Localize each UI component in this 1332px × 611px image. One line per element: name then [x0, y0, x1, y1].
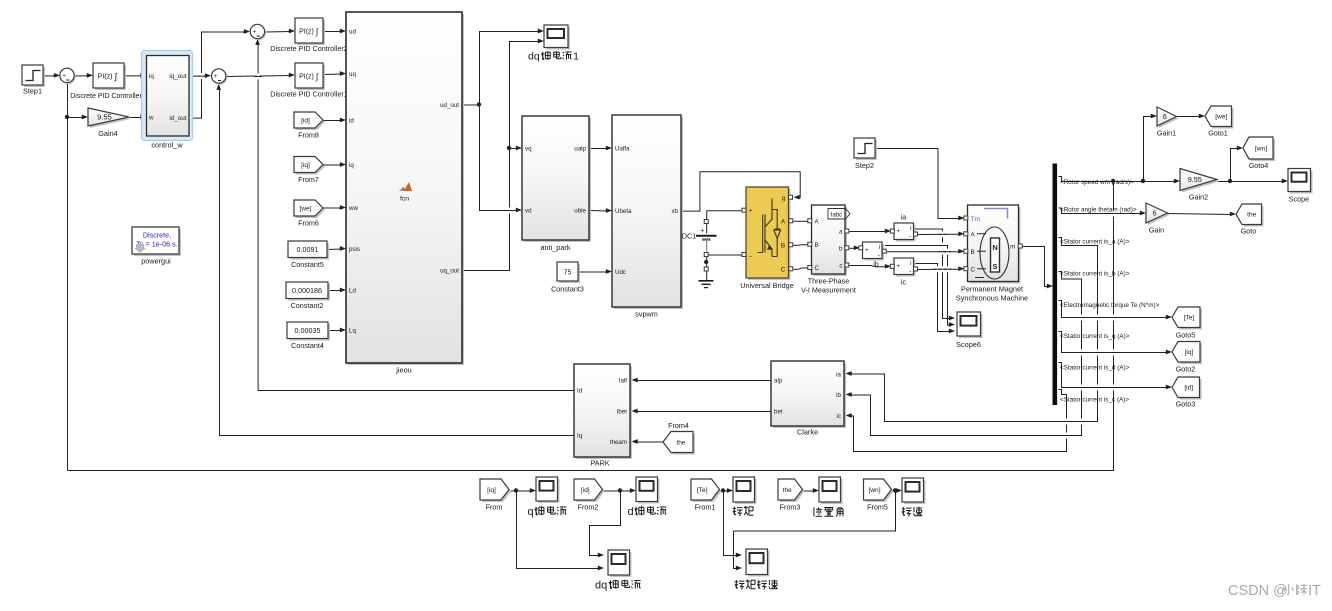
svg-text:id_out: id_out — [169, 115, 186, 122]
subsystem PARK — [576, 366, 632, 459]
wire control_w iq_out to Sum3 — [190, 75, 207, 77]
subsystem control_w highlighted — [142, 51, 193, 141]
wire Gain2 output to Scope with Goto4 branch — [1218, 181, 1284, 183]
block Discrete PID Controller speed — [95, 65, 126, 90]
block Universal Bridge IGBT — [748, 189, 791, 280]
constant Constant2 0.000186 — [288, 284, 330, 301]
svg-text:[iq]: [iq] — [1185, 349, 1194, 356]
svg-text:Constant5: Constant5 — [291, 260, 324, 269]
svg-text:+: + — [700, 228, 704, 235]
svg-text:9.55: 9.55 — [97, 113, 112, 122]
wire bus out1 rotor speed to Gain2/Scope — [1059, 177, 1176, 182]
wire ic i-signal down to Scope6 input3 — [914, 264, 951, 332]
svg-text:From3: From3 — [780, 503, 801, 512]
wire control_w id_out up to Sum2 — [190, 32, 246, 118]
wire ic minus to PMSM C — [918, 268, 961, 270]
svg-text:1: 1 — [573, 51, 579, 63]
svg-text:i: i — [910, 225, 911, 232]
from From5 wn — [866, 481, 894, 502]
wire meas a to ia plus — [850, 231, 887, 233]
svg-text:Tm: Tm — [971, 216, 981, 223]
subsystem Clarke — [773, 363, 846, 428]
svg-text:ia: ia — [836, 372, 841, 379]
svg-text:0.00035: 0.00035 — [295, 326, 321, 335]
svg-text:jieou: jieou — [395, 366, 411, 375]
svg-text:Iq: Iq — [577, 433, 583, 440]
wire Constant5 to jieou psis — [328, 248, 342, 251]
svg-text:IT: IT — [1308, 583, 1321, 599]
svg-text:<Stator current is_q (A)>: <Stator current is_q (A)> — [1060, 333, 1130, 340]
svg-text:0.0091: 0.0091 — [297, 245, 319, 254]
wire bus out2 rotor angle to Gain — [1059, 208, 1142, 214]
svg-text:DC1: DC1 — [682, 232, 697, 241]
wire bridge C to measurement C — [794, 268, 809, 269]
svg-text:i: i — [910, 260, 911, 267]
svg-text:<Rotor angle thetam (rad)>: <Rotor angle thetam (rad)> — [1060, 207, 1137, 214]
svg-text:B: B — [971, 249, 975, 256]
svg-text:From7: From7 — [298, 175, 319, 184]
source DC1 battery — [704, 220, 708, 224]
svg-text:+: + — [897, 228, 901, 235]
svg-text:[Te]: [Te] — [1184, 315, 1195, 322]
subsystem svpwm — [614, 117, 683, 309]
svg-text:From6: From6 — [298, 219, 319, 228]
bus selector bar — [1055, 164, 1057, 406]
svg-text:the: the — [1247, 212, 1256, 219]
svg-text:the: the — [783, 487, 792, 494]
block current measurement ia — [896, 225, 916, 242]
svg-text:ic: ic — [837, 413, 841, 420]
svg-text:[we]: [we] — [1215, 114, 1227, 121]
wire From4 to PARK theam — [638, 441, 664, 443]
constant Constant5 0.0091 — [290, 243, 329, 260]
svg-text:Id: Id — [577, 388, 583, 395]
scope torque and speed combined — [748, 551, 770, 577]
svg-text:[id]: [id] — [581, 487, 590, 494]
wire jieou uq_out to anti_park vq and scope — [463, 149, 518, 271]
svg-text:iq: iq — [349, 162, 354, 169]
svg-text:dq: dq — [528, 51, 540, 63]
svg-text:From: From — [486, 503, 503, 512]
svg-text:Scope6: Scope6 — [956, 340, 981, 349]
svg-text:Gain2: Gain2 — [1189, 193, 1208, 202]
wire DC1 plus to bridge — [707, 210, 743, 212]
gain Gain2 9.55 — [1182, 171, 1219, 193]
svg-text:g: g — [782, 195, 786, 202]
goto Goto the — [1238, 206, 1264, 227]
wire ib minus to PMSM B — [887, 251, 960, 253]
svg-text:75: 75 — [564, 268, 572, 277]
svg-text:+: + — [253, 29, 257, 36]
svg-text:svpwm: svpwm — [635, 310, 658, 319]
wire PMSM m to Bus Selector — [1019, 247, 1049, 287]
svg-text:PI(z): PI(z) — [97, 72, 112, 81]
block Permanent Magnet Synchronous Machine — [970, 207, 1021, 284]
svg-text:CSDN @: CSDN @ — [1228, 583, 1288, 599]
svg-text:ic: ic — [901, 278, 907, 287]
svg-text:A: A — [971, 232, 976, 239]
constant Constant4 0.00035 — [289, 324, 330, 341]
svg-text:anti_park: anti_park — [540, 243, 570, 252]
svg-text:+: + — [62, 72, 66, 79]
block current measurement ib — [865, 244, 885, 261]
block Discrete PID Controller2 — [297, 20, 325, 45]
scope dq axis current combined — [610, 552, 632, 577]
wire long rotor-speed feedback bottom — [68, 182, 1114, 471]
svg-text:Ibet: Ibet — [617, 409, 628, 416]
wire Gain to Goto the — [1168, 214, 1232, 215]
subsystem anti_park — [524, 118, 591, 242]
from From2 id — [576, 481, 605, 502]
svg-text:vq: vq — [525, 146, 532, 153]
svg-text:9.55: 9.55 — [1188, 175, 1202, 184]
svg-text:ud: ud — [349, 28, 356, 35]
svg-text:the: the — [676, 439, 685, 446]
wire Constant3 to svpwm Udc — [579, 271, 608, 273]
subsystem jieou decoupling — [348, 14, 464, 365]
svg-text:m: m — [1010, 244, 1015, 251]
svg-text:+: + — [897, 263, 901, 270]
svg-text:PI(z): PI(z) — [299, 74, 314, 81]
wire From iq to q-scope and dq-scope — [510, 490, 532, 492]
wire Gain1 to Goto1 — [1177, 116, 1201, 118]
wire Id feedback up to Sum2 bottom — [258, 44, 574, 390]
wire bus out7 is_d to Goto3 — [1059, 363, 1168, 388]
svg-text:Discrete PID Controller: Discrete PID Controller — [70, 93, 142, 100]
from From6 we — [296, 202, 325, 218]
svg-text:Ld: Ld — [349, 287, 356, 294]
wire meas c to ic plus — [850, 266, 887, 267]
scope torque — [735, 479, 757, 504]
svg-text:Three-Phase: Three-Phase — [808, 277, 850, 286]
svg-text:powergui: powergui — [141, 257, 171, 266]
block Three-Phase V-I Measurement — [814, 207, 848, 276]
wire Iq feedback up to Sum3 bottom — [220, 89, 575, 435]
svg-text:ww: ww — [348, 205, 358, 212]
block current measurement ic — [896, 260, 916, 277]
svg-text:<Electromagnetic torque Te (N*: <Electromagnetic torque Te (N*m)> — [1060, 302, 1160, 309]
svg-text:Step2: Step2 — [855, 161, 874, 170]
wire From3 the to angle scope — [803, 490, 815, 492]
wire Clarke alp to PARK Ialf — [638, 380, 772, 382]
wire From2 id to d-scope and dq-scope — [603, 490, 632, 492]
wire DC1 to ground — [706, 255, 708, 268]
svg-text:C: C — [781, 267, 786, 274]
wire ib i-signal down to Scope6 input2 — [885, 246, 951, 326]
svg-text:Gain: Gain — [1149, 226, 1164, 235]
svg-text:id: id — [349, 117, 354, 124]
wire PID to control_w iq — [125, 75, 143, 77]
sum Sum3 iq error — [213, 70, 227, 84]
svg-text:Ubeta: Ubeta — [615, 208, 632, 215]
svg-text:From2: From2 — [578, 503, 599, 512]
svg-text:w: w — [148, 115, 154, 122]
scope position angle — [821, 479, 843, 504]
scope d axis current — [638, 479, 660, 504]
svg-text:Discrete,: Discrete, — [143, 231, 171, 240]
scope Scope6 — [959, 314, 983, 338]
svg-text:psis: psis — [349, 246, 360, 253]
svg-text:Discrete PID Controller2: Discrete PID Controller2 — [270, 44, 348, 53]
svg-text:<Rotor speed wm (rad/s)>: <Rotor speed wm (rad/s)> — [1060, 179, 1134, 186]
wire DC1 minus to bridge — [707, 254, 743, 256]
wire From1 Te to torque scope and combined scope — [720, 490, 729, 492]
svg-text:[id]: [id] — [1184, 385, 1193, 392]
wire From8 to jieou id — [324, 120, 342, 122]
goto Goto3 id — [1174, 379, 1202, 400]
wire Step2 to PMSM Tm — [876, 149, 961, 219]
svg-text:Permanent Magnet: Permanent Magnet — [961, 285, 1023, 294]
wire From6 to jieou ww — [324, 207, 342, 209]
scope Scope speed — [1290, 171, 1313, 194]
wire speed feedback vertical x67 — [67, 83, 69, 470]
svg-text:<Stator current is_a (A)>: <Stator current is_a (A)> — [1060, 239, 1130, 246]
svg-text:c: c — [839, 262, 842, 269]
svg-text:fcn: fcn — [400, 196, 409, 203]
goto Goto4 wn — [1245, 139, 1275, 161]
svg-text:Constant2: Constant2 — [291, 301, 324, 310]
svg-text:Gain4: Gain4 — [98, 129, 117, 138]
gain Gain1 6 — [1159, 109, 1179, 128]
svg-text:From4: From4 — [668, 421, 689, 430]
svg-text:<Stator current is_c (A)>: <Stator current is_c (A)> — [1060, 397, 1129, 404]
svg-text:0.000186: 0.000186 — [292, 286, 322, 295]
wire bus out3 is_a to Clarke ia — [852, 238, 1098, 422]
scope dq axis current 1 — [546, 27, 570, 50]
svg-text:[wn]: [wn] — [1255, 145, 1267, 152]
svg-text:C: C — [815, 265, 820, 272]
svg-text:Constant3: Constant3 — [551, 285, 584, 294]
wire Sum3 to Discrete PID Controller1 — [227, 76, 291, 77]
constant Constant3 75 — [559, 264, 580, 283]
svg-text:S: S — [993, 262, 998, 271]
block Step1 source — [24, 67, 45, 87]
svg-text:ib: ib — [873, 260, 879, 269]
svg-text:uq_out: uq_out — [440, 267, 459, 274]
gain Gain 6 angle — [1148, 205, 1170, 225]
svg-text:[wn]: [wn] — [868, 487, 880, 494]
svg-text:Udc: Udc — [615, 269, 626, 276]
wire Gain4 to control_w w — [130, 117, 143, 119]
svg-text:ib: ib — [836, 392, 841, 399]
svg-text:C: C — [971, 267, 976, 274]
svg-text:B: B — [781, 243, 785, 250]
from From8 id — [296, 114, 325, 130]
svg-text:Synchronous Machine: Synchronous Machine — [956, 294, 1028, 303]
sum Sum2 id error — [252, 26, 266, 40]
svg-text:alp: alp — [774, 378, 783, 385]
svg-text:From8: From8 — [298, 131, 319, 140]
wire bus out8 is_c to Clarke ic — [852, 390, 1067, 452]
svg-text:N: N — [992, 243, 997, 252]
svg-text:Gain1: Gain1 — [1157, 129, 1176, 138]
svg-text:vd: vd — [525, 208, 532, 215]
svg-text:Universal Bridge: Universal Bridge — [740, 281, 794, 290]
wire svpwm xb to Universal Bridge g — [682, 172, 801, 211]
from From1 Te — [693, 481, 722, 502]
svg-text:theam: theam — [610, 439, 627, 446]
goto Goto2 iq — [1174, 344, 1202, 365]
wire speed feedback branch to Gain4 — [68, 117, 84, 119]
svg-text:a: a — [839, 228, 843, 235]
svg-text:Goto1: Goto1 — [1208, 129, 1228, 138]
svg-text:uq: uq — [349, 71, 356, 78]
wire Step1 to Sum1 — [44, 75, 56, 77]
svg-text:Constant4: Constant4 — [291, 341, 324, 350]
svg-text:Goto4: Goto4 — [1249, 161, 1269, 170]
scope q axis current — [538, 479, 560, 503]
svg-text:[we]: [we] — [299, 205, 311, 212]
scope speed rpm — [904, 480, 926, 504]
gain Gain4 9.55 — [90, 110, 131, 128]
wire bus out4 is_b to Clarke ib — [852, 272, 1082, 436]
wire bus out6 is_q to Goto2 — [1059, 332, 1168, 353]
wire jieou ud_out to scope and anti_park vd — [463, 32, 540, 106]
svg-text:[id]: [id] — [301, 117, 310, 124]
svg-text:B: B — [815, 242, 819, 249]
svg-text:Ualfa: Ualfa — [615, 146, 630, 153]
from From7 iq — [296, 159, 325, 175]
svg-text:6: 6 — [1163, 112, 1167, 121]
svg-text:From5: From5 — [867, 503, 888, 512]
wire Clarke bet to PARK Ibet — [638, 411, 772, 413]
block Discrete PID Controller1 — [297, 65, 325, 90]
icon IGBT and diode inside bridge — [763, 215, 765, 253]
svg-text:Goto5: Goto5 — [1176, 331, 1196, 340]
wire crossing gaps — [200, 73, 203, 79]
block Step2 source — [856, 140, 877, 160]
wire anti_park ualp to svpwm Ualfa — [590, 148, 608, 150]
svg-text:i: i — [879, 244, 880, 251]
block powergui — [134, 229, 181, 256]
wire PID2 to jieou ud — [324, 31, 342, 33]
svg-text:b: b — [839, 245, 843, 252]
svg-text:ia: ia — [901, 213, 907, 222]
wire ia i-signal down to Scope6 input1 — [914, 229, 951, 319]
svg-text:Ialf: Ialf — [619, 378, 628, 385]
goto Goto1 we — [1207, 108, 1234, 129]
svg-text:Goto: Goto — [1241, 227, 1257, 236]
icon MATLAB fcn inside jieou — [399, 182, 412, 191]
svg-text:[iq]: [iq] — [487, 487, 496, 494]
svg-text:PARK: PARK — [590, 459, 609, 468]
svg-text:Step1: Step1 — [23, 87, 42, 96]
ground symbol — [704, 267, 708, 271]
from From iq — [482, 481, 511, 502]
svg-text:uble: uble — [574, 208, 586, 215]
svg-text:ualp: ualp — [574, 146, 586, 153]
svg-text:[Te]: [Te] — [697, 487, 708, 494]
wire bridge A to measurement A — [794, 220, 809, 222]
svg-text:xb: xb — [671, 208, 678, 215]
svg-text:Iabc: Iabc — [831, 213, 842, 219]
svg-text:+: + — [749, 208, 753, 215]
svg-text:bet: bet — [774, 409, 783, 416]
svg-text:6: 6 — [1153, 209, 1157, 218]
goto Goto5 Te — [1174, 309, 1202, 330]
wire meas b to ib plus — [850, 247, 856, 249]
svg-text:iq: iq — [149, 73, 154, 80]
wire Sum1 to Discrete PID Controller — [75, 75, 89, 77]
svg-text:V-I Measurement: V-I Measurement — [801, 286, 856, 295]
svg-text:ud_out: ud_out — [440, 102, 459, 109]
wire ia minus to PMSM A — [918, 233, 961, 235]
wire anti_park uble to svpwm Ubeta — [590, 210, 608, 213]
wire Constant2 to jieou Ld — [329, 290, 342, 292]
svg-text:PI(z): PI(z) — [299, 29, 314, 36]
wire junction down x1113 — [1111, 179, 1115, 183]
svg-text:+: + — [865, 247, 869, 254]
svg-text:Lq: Lq — [349, 327, 356, 334]
svg-text:Goto2: Goto2 — [1176, 365, 1196, 374]
svg-text:control_w: control_w — [151, 141, 183, 150]
svg-text:Discrete PID Controller1: Discrete PID Controller1 — [270, 90, 348, 99]
svg-text:d: d — [628, 506, 634, 518]
wire Constant4 to jieou Lq — [329, 330, 342, 332]
wire From5 wn to speed scope and combined scope — [892, 490, 898, 492]
svg-text:<Stator current is_b (A)>: <Stator current is_b (A)> — [1060, 271, 1130, 278]
wire bus out5 torque to Goto5 — [1059, 301, 1168, 318]
wire branch up to Gain1 — [1144, 117, 1153, 182]
svg-text:+: + — [214, 73, 218, 80]
svg-text:A: A — [781, 219, 786, 226]
svg-text:dq: dq — [595, 580, 607, 592]
svg-text:<Stator current is_d (A)>: <Stator current is_d (A)> — [1060, 365, 1130, 372]
svg-text:[iq]: [iq] — [301, 162, 310, 169]
svg-text:Goto3: Goto3 — [1176, 400, 1196, 409]
svg-text:From1: From1 — [695, 503, 716, 512]
sum Sum1 speed error — [61, 70, 75, 84]
wire From7 to jieou iq — [324, 164, 342, 166]
wire PID1 to jieou uq — [324, 73, 342, 76]
from From3 the — [780, 481, 805, 502]
wire Sum2 to Discrete PID Controller2 — [265, 31, 291, 34]
svg-text:Scope: Scope — [1289, 195, 1309, 204]
wire bridge B to measurement B — [794, 244, 809, 247]
svg-text:q: q — [528, 506, 534, 518]
svg-text:Clarke: Clarke — [797, 428, 818, 437]
svg-text:iq_out: iq_out — [169, 73, 186, 80]
